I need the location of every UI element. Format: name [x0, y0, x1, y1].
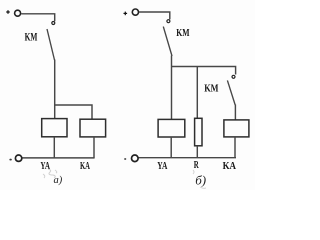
svg-text:KM: KM: [204, 83, 218, 94]
plus sign left: [6, 10, 10, 14]
minus dot b: [124, 158, 126, 160]
wire stub below YA b: [170, 137, 172, 158]
terminal circle bottom b: [132, 155, 139, 162]
svg-text:YA: YA: [157, 161, 168, 172]
svg-text:KM: KM: [25, 29, 38, 43]
wire branch b to right corner: [172, 67, 236, 75]
terminal circle bottom a: [15, 155, 21, 161]
svg-text:KA: KA: [223, 161, 237, 172]
wire stub KM2 to KA b: [234, 105, 236, 121]
wire branch a: [55, 105, 92, 119]
coil KA b: [224, 120, 249, 137]
coil KA a: [80, 119, 106, 137]
wire bottom b: [138, 157, 236, 159]
svg-text:KA: KA: [80, 161, 91, 172]
wire stub below KA a: [93, 137, 95, 158]
minus dot a: [9, 159, 11, 161]
switch blade KM a: [47, 29, 55, 60]
svg-text:KM: KM: [176, 28, 189, 39]
terminal circle top a: [15, 10, 21, 16]
svg-text:б): б): [195, 173, 206, 188]
svg-text:R: R: [194, 160, 200, 171]
coil YA a: [42, 119, 67, 137]
wire stub below YA a: [53, 137, 55, 158]
wire R branch: [196, 67, 198, 119]
wire main vertical b: [171, 56, 173, 120]
noise smudge near b): [193, 170, 206, 188]
wire top a: [21, 14, 55, 21]
wire main vertical a: [54, 60, 56, 119]
contact hook KM2 b: [232, 75, 235, 78]
contact hook KM1 b: [167, 20, 170, 23]
svg-text:YA: YA: [40, 161, 50, 172]
wire top b: [139, 12, 170, 19]
wire stub below R: [196, 146, 198, 158]
coil YA b: [158, 119, 185, 137]
wire stub below KA b: [234, 137, 236, 158]
wire bottom a: [22, 157, 95, 159]
terminal circle top b: [132, 9, 138, 15]
noise smudge under YA a: [43, 169, 57, 178]
switch blade KM1 b: [163, 27, 172, 56]
contact hook KM a: [52, 22, 55, 25]
plus sign right: [124, 12, 128, 16]
switch blade KM2 b: [227, 80, 235, 105]
resistor R: [195, 118, 202, 146]
